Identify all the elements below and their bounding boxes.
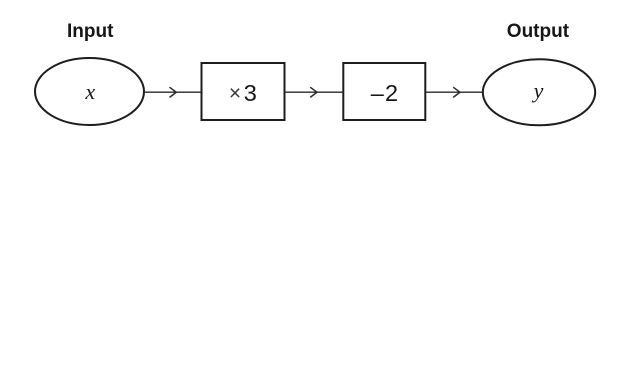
box times 3 [202, 63, 285, 120]
svg-text:y: y [532, 78, 544, 103]
input ellipse [35, 58, 144, 125]
box minus 2 [343, 63, 425, 120]
wire arrow 1 [145, 87, 202, 97]
wire arrow 2 [285, 87, 344, 97]
svg-text:×: × [229, 82, 241, 105]
wire arrow 3 [425, 87, 483, 97]
svg-text:x: x [84, 79, 95, 104]
svg-text:–: – [371, 80, 385, 106]
svg-text:3: 3 [244, 80, 257, 106]
output ellipse [483, 59, 595, 125]
svg-text:Output: Output [507, 21, 570, 42]
svg-text:2: 2 [385, 80, 398, 106]
svg-text:Input: Input [67, 21, 114, 42]
